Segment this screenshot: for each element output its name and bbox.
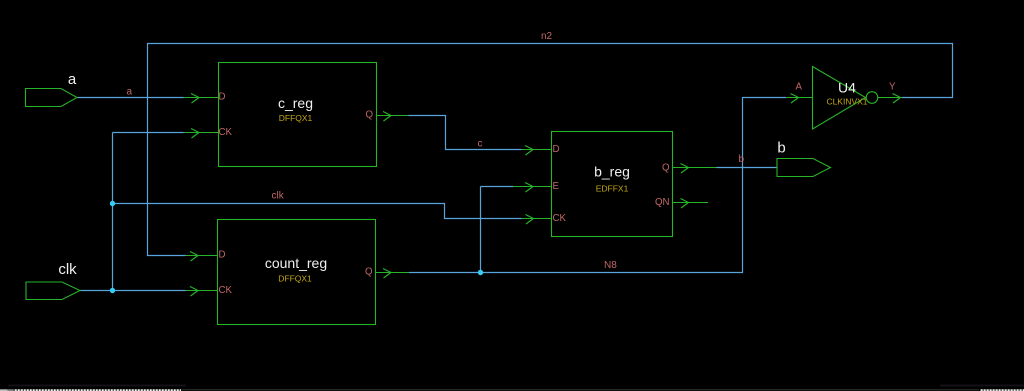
svg-text:D: D: [219, 249, 226, 260]
junction clk lower: [110, 288, 115, 293]
flip-flop b_reg box: [552, 132, 673, 237]
svg-text:Y: Y: [889, 82, 896, 93]
b_reg E input stub: [513, 183, 551, 193]
svg-text:N8: N8: [604, 260, 617, 271]
svg-text:U4: U4: [838, 80, 856, 96]
bottom scrollbar left gray cap: [0, 389, 8, 391]
c_reg Q output stub: [377, 112, 409, 122]
output port b: [777, 159, 831, 177]
svg-text:A: A: [796, 82, 803, 93]
b_reg Q output stub: [673, 164, 717, 174]
svg-text:clk: clk: [58, 261, 77, 278]
inverter U4: [813, 67, 878, 130]
bottom stipple right: [940, 385, 1024, 387]
b_reg QN output stub: [673, 199, 709, 209]
wire net b: [717, 167, 778, 169]
junction clk upper: [110, 201, 115, 206]
svg-text:b_reg: b_reg: [594, 164, 630, 180]
bottom scrollbar left dark cap: [8, 389, 14, 391]
svg-text:CK: CK: [219, 285, 233, 296]
b_reg D input stub: [522, 146, 552, 156]
svg-text:CK: CK: [553, 213, 567, 224]
svg-text:D: D: [219, 92, 226, 103]
svg-text:E: E: [553, 181, 560, 192]
svg-text:D: D: [553, 144, 560, 155]
svg-text:EDFFX1: EDFFX1: [596, 184, 629, 194]
U4 Y output stub: [878, 94, 902, 104]
wire net clk: [80, 133, 522, 291]
svg-text:QN: QN: [655, 197, 670, 208]
svg-text:CLKINVX1: CLKINVX1: [826, 97, 867, 107]
bottom scrollbar thumb right: [981, 389, 1024, 391]
svg-text:Q: Q: [662, 162, 670, 173]
input port clk: [26, 282, 80, 300]
svg-text:clk: clk: [272, 191, 285, 202]
count_reg D input stub: [186, 252, 218, 262]
svg-text:c: c: [478, 139, 483, 150]
c_reg CK input stub: [184, 129, 219, 139]
svg-text:DFFQX1: DFFQX1: [279, 113, 313, 123]
svg-text:c_reg: c_reg: [278, 95, 313, 111]
svg-text:b: b: [777, 140, 785, 157]
svg-text:DFFQX1: DFFQX1: [278, 274, 312, 284]
U4 A input stub: [786, 94, 813, 104]
svg-text:a: a: [127, 87, 133, 98]
svg-text:CK: CK: [219, 127, 233, 138]
count_reg Q output stub: [376, 269, 410, 279]
bottom stipple left: [8, 385, 186, 387]
svg-text:Q: Q: [365, 109, 373, 120]
flip-flop count_reg box: [218, 220, 376, 325]
c_reg D input stub: [184, 94, 219, 104]
svg-text:n2: n2: [541, 31, 553, 42]
b_reg CK input stub: [522, 215, 552, 225]
wire net a: [77, 97, 184, 99]
svg-text:b: b: [739, 154, 745, 165]
wire net n2: [148, 44, 953, 256]
flip-flop c_reg box: [219, 63, 377, 167]
svg-text:count_reg: count_reg: [265, 255, 327, 271]
wire net N8: [409, 98, 786, 273]
svg-text:a: a: [68, 71, 77, 88]
svg-text:Q: Q: [365, 266, 373, 277]
junction N8: [478, 270, 483, 275]
bottom scrollbar trough line: [181, 389, 979, 390]
wire net c: [409, 116, 522, 150]
bottom scrollbar thumb left: [15, 389, 181, 391]
input port a: [26, 89, 78, 107]
count_reg CK input stub: [186, 287, 218, 297]
